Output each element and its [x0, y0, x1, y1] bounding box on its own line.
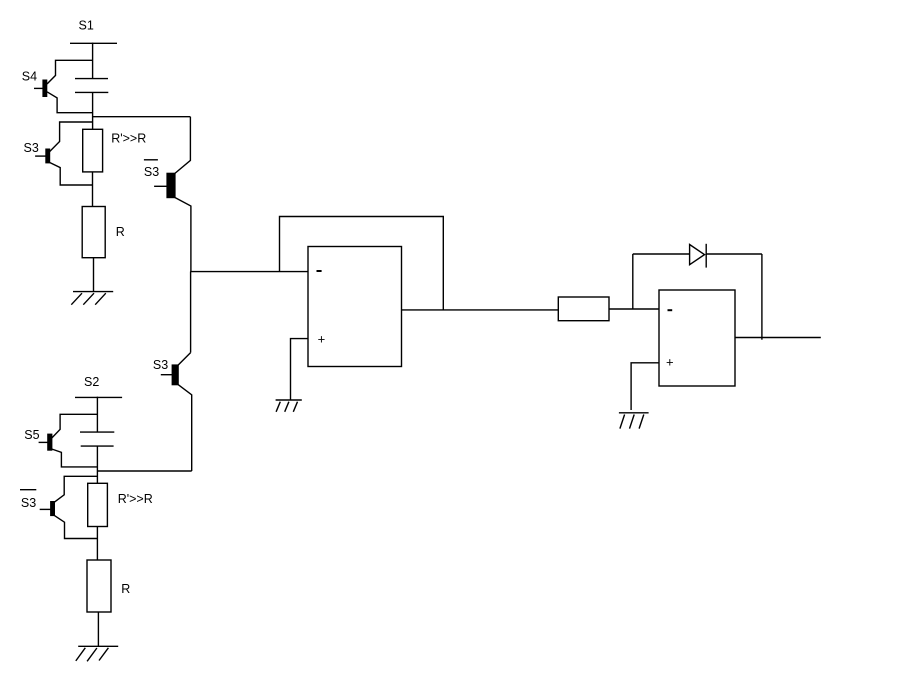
- wire S2 to capacitor C2: [96, 397, 98, 432]
- transistor S3 top-left label: [24, 141, 39, 155]
- ground bottom-left: [76, 646, 118, 661]
- capacitor C1 bottom plate: [75, 91, 108, 93]
- wire op-amp U1 plus input: [291, 339, 309, 400]
- svg-text:R: R: [121, 582, 130, 596]
- capacitor C2 top plate: [80, 431, 114, 433]
- resistor R1: [82, 207, 105, 258]
- switch S1 label: [79, 19, 94, 33]
- resistor R'1 value label: [111, 132, 146, 146]
- transistor S4 label: [22, 69, 37, 83]
- wire capacitor C2 to resistor R'2: [96, 446, 98, 483]
- wire diode D1 cathode: [706, 253, 762, 255]
- wire S2 cell node to S3 emitter: [97, 470, 191, 472]
- capacitor C2 bottom plate: [81, 445, 114, 447]
- transistor S5 label: [24, 428, 39, 442]
- wire R2 to ground: [97, 612, 99, 646]
- transistor S5: [39, 414, 98, 467]
- wire junction up to diode D1 anode: [632, 254, 634, 309]
- resistor R2: [87, 560, 111, 612]
- wire R3 to op-amp U2: [609, 308, 659, 310]
- op-amp U1 inverting pin label: [317, 270, 322, 272]
- svg-text:S5: S5: [24, 428, 39, 442]
- svg-text:S3: S3: [24, 141, 39, 155]
- resistor R'1: [83, 129, 103, 172]
- resistor R1 value label: [116, 225, 125, 239]
- op-amp U1: [308, 247, 402, 367]
- wire S1 to capacitor C1: [92, 43, 94, 79]
- switch S2 label: [84, 375, 99, 389]
- transistor S3 middle: [161, 353, 192, 471]
- svg-text:R'>>R: R'>>R: [118, 492, 153, 506]
- switch S1 plate: [70, 42, 117, 44]
- diode D1: [690, 244, 707, 268]
- op-amp U2: [659, 290, 735, 386]
- transistor S3bar lower label: [21, 496, 36, 510]
- wire D1 feedback down to output: [761, 254, 763, 340]
- ground op-amp U1: [276, 400, 302, 412]
- wire inverting input node to op-amp U1: [190, 271, 308, 273]
- transistor S3bar lower: [40, 476, 98, 538]
- wire node down to S3 collector: [190, 272, 192, 353]
- svg-text:+: +: [318, 332, 326, 347]
- switch S2 plate: [75, 396, 122, 398]
- svg-text:S2: S2: [84, 375, 99, 389]
- transistor S3bar middle overline: [144, 159, 158, 161]
- wire op-amp U1 feedback: [280, 217, 444, 310]
- ground op-amp U2: [619, 413, 649, 429]
- op-amp U2 non-inverting pin label: [666, 354, 674, 369]
- ground top-left: [71, 292, 113, 305]
- svg-text:S4: S4: [22, 69, 37, 83]
- transistor S4: [34, 60, 93, 112]
- resistor R3: [558, 297, 609, 321]
- svg-text:R: R: [116, 225, 125, 239]
- wire node A junction to S3bar collector: [93, 116, 191, 118]
- wire R'2 to R2: [96, 527, 98, 561]
- transistor S3 top-left: [35, 122, 93, 185]
- svg-text:R'>>R: R'>>R: [111, 132, 146, 146]
- op-amp U2 inverting pin label: [668, 309, 673, 311]
- wire R'1 to R1: [92, 172, 94, 207]
- transistor S3bar lower overline: [20, 489, 36, 491]
- op-amp U1 non-inverting pin label: [318, 332, 326, 347]
- transistor S3bar middle label: [144, 165, 159, 179]
- svg-text:S3: S3: [153, 358, 168, 372]
- capacitor C1 top plate: [75, 78, 108, 80]
- wire R1 to ground: [93, 258, 95, 292]
- transistor S3 middle label: [153, 358, 168, 372]
- wire op-amp U2 output: [735, 337, 821, 339]
- wire diode D1 anode: [633, 253, 690, 255]
- svg-text:S3: S3: [21, 496, 36, 510]
- wire op-amp U1 output: [402, 309, 559, 311]
- svg-text:+: +: [666, 354, 674, 369]
- svg-text:S1: S1: [79, 19, 94, 33]
- wire capacitor C1 to resistor R'1: [92, 92, 94, 129]
- resistor R'2: [88, 483, 108, 526]
- resistor R'2 value label: [118, 492, 153, 506]
- transistor S3bar middle: [154, 117, 191, 272]
- wire op-amp U2 plus input: [631, 363, 659, 410]
- svg-text:S3: S3: [144, 165, 159, 179]
- resistor R2 value label: [121, 582, 130, 596]
